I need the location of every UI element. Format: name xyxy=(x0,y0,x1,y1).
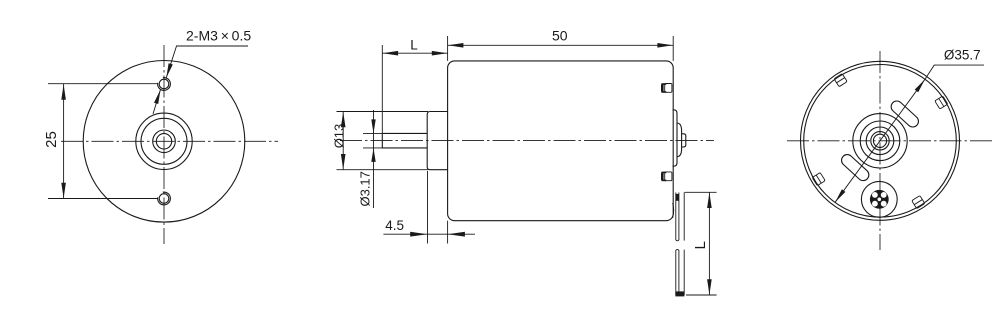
dim L right arrow xyxy=(432,51,448,56)
rear view horizontal centerline xyxy=(787,140,995,142)
dim 4.5 arrow right (left side) xyxy=(410,232,427,237)
dim 25 arrow down xyxy=(61,183,66,199)
dim L vertical arrow down xyxy=(707,279,712,295)
front boss circle D13 xyxy=(136,113,192,169)
shaft side profile xyxy=(382,133,427,148)
dim D3.17 ext line bottom xyxy=(363,147,382,149)
rear hub circle 4 xyxy=(871,132,889,150)
dim D13 arrow up xyxy=(341,112,346,128)
dim 50 ext line at body left xyxy=(447,36,449,61)
top mounting hole thread arc xyxy=(158,78,171,91)
dim D3.17 arrow down (above shaft) xyxy=(371,119,375,133)
dim D13 ext line bottom xyxy=(337,169,429,171)
terminal crimp mark xyxy=(676,194,679,201)
dim 25 extension line bottom xyxy=(48,198,158,200)
dim 50 left arrow xyxy=(448,43,464,48)
dim 4.5 dimension line xyxy=(383,233,475,235)
front shaft hub circle xyxy=(153,130,176,153)
dim L vertical ext line bottom xyxy=(686,294,717,296)
brush cap inner disc xyxy=(870,190,889,209)
dim L vertical ext line top xyxy=(685,191,717,193)
dim L ext line at shaft end xyxy=(381,45,383,133)
label 2-M3x0.5 leader upper segment xyxy=(166,46,176,78)
dim D35.7 diameter line xyxy=(835,65,984,202)
front view horizontal centerline xyxy=(61,140,278,142)
front boss side profile xyxy=(427,112,447,170)
label 2-M3x0.5 leader shelf xyxy=(176,45,248,47)
label 2-M3x0.5 upper arrow xyxy=(166,63,173,77)
label 2-M3x0.5 lower arrow xyxy=(154,90,161,105)
rear hub circle 2 xyxy=(860,121,900,161)
dim 50 right arrow xyxy=(657,43,673,48)
dim 50 dimension line xyxy=(448,44,674,46)
front view vertical centerline xyxy=(163,45,165,244)
terminal strip right edge xyxy=(683,192,685,240)
rear view vertical centerline xyxy=(879,51,881,250)
rim tab lower right xyxy=(912,196,925,209)
rim tab lower left xyxy=(812,173,825,186)
front shaft circle D3.17 xyxy=(156,134,171,149)
dim L left arrow xyxy=(383,51,399,56)
top mounting hole M3 inner circle xyxy=(159,79,169,89)
svg-text:L: L xyxy=(692,241,709,249)
dim D13 ext line top xyxy=(337,111,429,113)
vent slot lower left xyxy=(839,152,871,183)
rear hub circle 3 xyxy=(866,127,894,155)
can edge curl at terminal xyxy=(673,203,674,218)
dim 25 dimension line xyxy=(63,84,65,199)
dim 25 extension line top xyxy=(48,83,158,85)
front bearing boss circle xyxy=(141,118,187,164)
dim D13 arrow down xyxy=(341,154,346,170)
side view motor body xyxy=(448,61,674,221)
terminal strip left lower part xyxy=(676,249,679,295)
svg-text:50: 50 xyxy=(552,28,568,44)
dim 50 ext line at body right xyxy=(672,36,674,61)
rear bearing cover plate xyxy=(673,110,678,166)
svg-text:Ø13: Ø13 xyxy=(331,124,346,149)
dim 25 arrow up xyxy=(61,84,66,100)
vent slot upper right xyxy=(889,99,921,130)
rear cover clip bottom xyxy=(662,172,672,181)
label 2-M3x0.5 leader lower segment xyxy=(153,90,161,115)
brush cap outer circle xyxy=(861,181,897,217)
dim L vertical dimension line xyxy=(708,192,710,295)
dim D3.17 arrow up (below shaft) xyxy=(371,148,375,162)
rim tab upper right xyxy=(935,96,948,109)
rim tab upper left xyxy=(834,74,847,87)
rear shaft circle xyxy=(873,134,886,147)
terminal solder tip xyxy=(675,291,684,296)
side view centerline xyxy=(340,140,714,142)
svg-text:25: 25 xyxy=(43,131,60,148)
rear shaft stub xyxy=(682,134,686,147)
svg-text:Ø3.17: Ø3.17 xyxy=(358,171,373,206)
svg-text:4.5: 4.5 xyxy=(385,218,404,233)
dim 4.5 ext line at boss face xyxy=(427,171,429,244)
svg-text:2-M3 × 0.5: 2-M3 × 0.5 xyxy=(186,28,251,44)
rear view cover circle xyxy=(804,65,957,218)
dim D3.17 dimension line xyxy=(373,110,375,208)
svg-text:L: L xyxy=(410,38,418,53)
dim 4.5 arrow left (right side) xyxy=(448,232,465,237)
bottom mounting hole M3 inner circle xyxy=(159,194,169,204)
dim 4.5 ext line at body face xyxy=(447,221,449,244)
svg-text:Ø35.7: Ø35.7 xyxy=(944,48,981,63)
rear bearing dome xyxy=(677,123,682,157)
dim D35.7 arrow lower xyxy=(835,189,845,202)
dim D3.17 ext line top xyxy=(363,132,382,134)
rear hub circle 1 xyxy=(853,114,907,168)
dim L dimension line xyxy=(382,52,447,54)
brush cap holes xyxy=(872,192,887,207)
terminal strip right lower part xyxy=(683,250,685,295)
terminal strip left edge xyxy=(676,193,679,241)
rear cover clip top xyxy=(662,84,672,93)
bottom mounting hole thread arc xyxy=(158,192,171,205)
rear view outer can circle xyxy=(801,61,960,220)
dim D13 dimension line xyxy=(342,112,344,170)
front view outer can circle xyxy=(83,61,245,223)
dim D35.7 arrow upper xyxy=(915,79,925,92)
dim L vertical arrow up xyxy=(707,193,712,209)
